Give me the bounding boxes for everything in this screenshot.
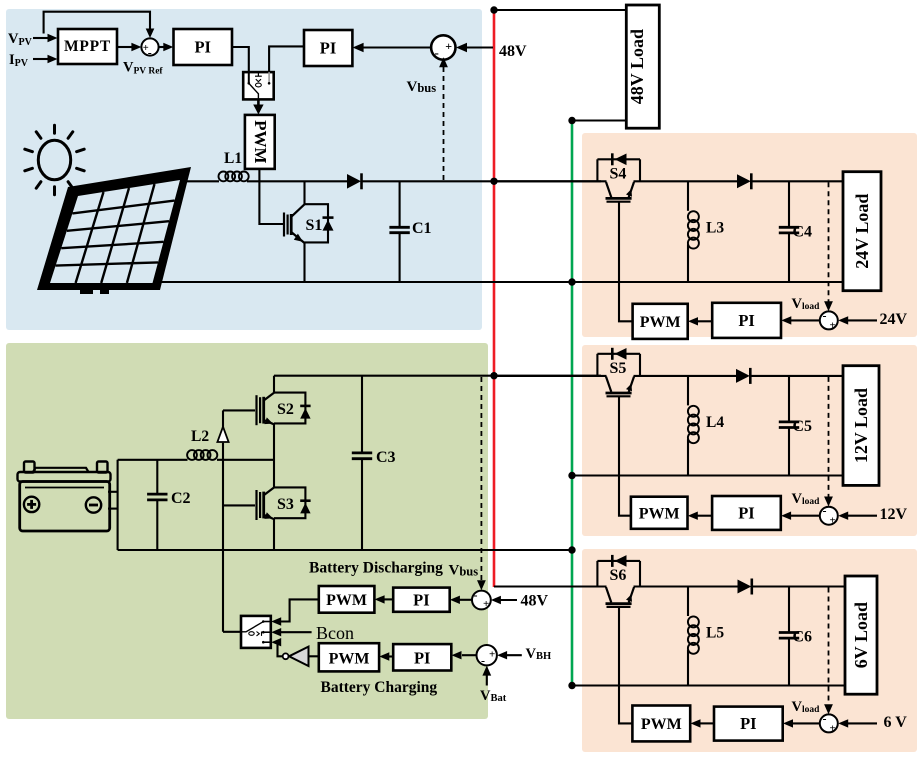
svg-text:C1: C1 <box>412 220 432 237</box>
PWM block (boost) <box>245 115 275 169</box>
PI controller block (48V loop) <box>304 30 352 66</box>
svg-text:C4: C4 <box>793 223 813 240</box>
S4 freewheeling diode <box>612 153 626 165</box>
wire red bus to 48V load <box>494 9 626 11</box>
wire PV panel to L1 <box>186 180 219 182</box>
wire PWM to S5 gate <box>619 397 631 516</box>
wire S6 to output diode <box>634 585 738 587</box>
48V positive bus (red) <box>493 10 496 587</box>
wire MPPT to summer <box>117 43 141 51</box>
svg-text:Battery Discharging: Battery Discharging <box>309 560 443 577</box>
svg-text:PWM: PWM <box>329 651 370 668</box>
S6 freewheeling diode <box>612 555 626 567</box>
Vbus sense dashed wire (battery loop) <box>477 377 486 590</box>
summing junction (charging loop) <box>477 645 497 668</box>
12V reference arrow <box>838 512 877 520</box>
6 V reference arrow <box>838 719 877 727</box>
gate buffer (charging) <box>283 647 309 666</box>
svg-text:Vbus: Vbus <box>407 79 437 95</box>
wire PI to PWM (discharge) <box>375 595 394 603</box>
wire buffer to PWM (charging) <box>309 655 319 657</box>
svg-text:L4: L4 <box>706 414 724 431</box>
svg-text:S6: S6 <box>610 567 627 584</box>
svg-text:PI: PI <box>413 591 430 610</box>
wire summer to PI (S5) <box>781 512 820 520</box>
wire D1 to 24V converter input <box>362 180 601 182</box>
bottom rail (S5 converter) <box>572 474 843 476</box>
svg-text:C3: C3 <box>376 449 396 466</box>
svg-text:-: - <box>823 711 827 725</box>
wire PI to PWM (S6) <box>691 719 715 727</box>
S2 freewheeling diode <box>300 406 310 419</box>
Vload sense dashed wire (S5 converter) <box>824 377 833 507</box>
wire S4 to output diode <box>634 180 738 182</box>
svg-text:VBH: VBH <box>526 646 552 662</box>
svg-text:S1: S1 <box>306 217 323 234</box>
svg-text:Vbus: Vbus <box>449 563 479 579</box>
return bus (green) <box>571 121 574 686</box>
VBH reference arrow <box>497 651 522 659</box>
svg-text:Battery Charging: Battery Charging <box>321 679 438 696</box>
wire diode to load <box>752 180 843 182</box>
6V converter zone background <box>582 549 917 752</box>
24V reference arrow <box>838 316 877 324</box>
svg-text:PI: PI <box>414 648 431 667</box>
PI block (discharge) <box>393 588 450 612</box>
wire summer to PI (discharge) <box>450 596 472 604</box>
wire PI to PWM (charging) <box>379 652 393 660</box>
wire PWM to S6 gate <box>619 608 632 724</box>
svg-text:PI: PI <box>320 39 337 58</box>
48V reference arrow <box>456 43 493 53</box>
summing junction (discharge loop) <box>472 588 491 610</box>
transistor S3 (IGBT) <box>257 487 306 550</box>
svg-text:Bcon: Bcon <box>316 623 354 643</box>
svg-text:-: - <box>823 504 827 518</box>
svg-text:C6: C6 <box>793 629 813 646</box>
svg-text:6 V: 6 V <box>884 714 908 731</box>
battery converter top rail <box>274 375 601 377</box>
12V converter zone background <box>582 345 917 536</box>
output diode (S6 converter) <box>738 579 752 595</box>
PI block (S5 converter) <box>712 496 781 530</box>
svg-text:PWM: PWM <box>326 592 367 609</box>
svg-text:6V Load: 6V Load <box>851 602 871 668</box>
svg-text:24V: 24V <box>880 311 908 328</box>
svg-text:+: + <box>830 515 836 527</box>
wire PI to PWM (S4) <box>688 317 712 325</box>
wire PWM to S4 gate <box>619 202 633 321</box>
mode switch block <box>243 72 274 99</box>
svg-text:12V Load: 12V Load <box>851 388 871 463</box>
inductor L4 <box>688 376 699 476</box>
transistor S2 (IGBT) <box>257 376 306 426</box>
bottom rail (S6 converter) <box>572 684 845 686</box>
PWM block (discharge) <box>319 586 375 613</box>
transistor S4 (IGBT) <box>597 159 640 201</box>
wire buffer to switch input 3 <box>271 638 283 656</box>
svg-text:PWM: PWM <box>639 505 680 522</box>
inductor L3 <box>688 181 699 282</box>
svg-text:S3: S3 <box>277 496 294 513</box>
svg-text:PI: PI <box>738 503 755 522</box>
battery terminal wires <box>108 460 118 550</box>
main PV output wire <box>247 180 347 182</box>
wire diode to load <box>751 375 843 377</box>
PI controller block (MPPT loop) <box>174 29 233 65</box>
Vload sense dashed wire (S6 converter) <box>824 588 833 715</box>
wire input to S5 <box>494 375 607 377</box>
wire S5 to output diode <box>634 375 737 377</box>
battery converter bottom rail <box>118 549 572 551</box>
S1 freewheeling diode <box>323 218 334 231</box>
svg-text:48V: 48V <box>521 593 549 610</box>
svg-text:PWM: PWM <box>640 314 681 331</box>
svg-text:+: + <box>445 39 452 53</box>
Vload sense dashed wire (S4 converter) <box>824 182 833 311</box>
svg-text:MPPT: MPPT <box>64 38 111 55</box>
wire gate net to Bcon switch <box>223 631 241 633</box>
battery converter zone background <box>6 343 488 719</box>
svg-text:-: - <box>474 588 478 602</box>
boost diode D1 <box>347 173 362 189</box>
wire input to S4 <box>494 180 607 182</box>
PV panel <box>37 167 191 294</box>
Vpv feedback wire <box>44 12 155 38</box>
svg-text:12V: 12V <box>880 506 908 523</box>
PI block (S4 converter) <box>712 303 781 338</box>
svg-text:C5: C5 <box>793 418 813 435</box>
capacitor C5 <box>779 376 799 476</box>
output diode (S4 converter) <box>737 173 751 189</box>
svg-text:-: - <box>435 45 439 60</box>
output diode (S5 converter) <box>736 368 750 384</box>
summing junction (24V Load loop) <box>820 308 838 331</box>
Vpv input label <box>8 31 58 48</box>
summing junction (48V bus reg) <box>431 35 455 60</box>
capacitor C2 <box>147 460 167 550</box>
svg-text:24V Load: 24V Load <box>852 194 872 269</box>
6V Load block <box>845 576 877 694</box>
svg-text:S2: S2 <box>277 401 294 418</box>
shared negative rail (PV / 24V converter) <box>157 281 843 283</box>
S3 freewheeling diode <box>300 501 310 514</box>
wire green bus to 48V load <box>572 119 626 121</box>
wire summer to PI(48V) <box>353 43 432 53</box>
svg-text:PWM: PWM <box>641 716 682 733</box>
wire switch to PWM <box>253 99 263 114</box>
12V Load block <box>843 366 879 486</box>
svg-text:L5: L5 <box>706 625 724 642</box>
svg-text:S4: S4 <box>610 165 627 182</box>
svg-text:L1: L1 <box>224 150 242 167</box>
svg-text:+: + <box>483 598 489 610</box>
capacitor C1 <box>389 181 409 282</box>
wire diode to load <box>752 585 845 587</box>
PWM block (charging) <box>319 643 379 671</box>
transistor S5 (IGBT) <box>597 354 640 397</box>
wire summer to PI (S4) <box>781 316 820 324</box>
svg-text:-: - <box>148 46 152 60</box>
S5 freewheeling diode <box>612 348 626 360</box>
transistor S1 (IGBT) <box>284 181 328 282</box>
PWM block (S4 converter) <box>633 304 688 339</box>
Bcon selector switch <box>241 616 271 648</box>
wire L2 to half-bridge midpoint <box>217 459 274 461</box>
Ipv input label <box>9 52 58 69</box>
junction dots <box>490 6 575 689</box>
wire PWM to switch input 1 (discharge) <box>271 599 319 625</box>
wire summer to PI (charging) <box>452 651 477 659</box>
svg-text:PI: PI <box>194 38 211 57</box>
svg-text:-: - <box>823 308 827 322</box>
VBat feedback arrow <box>482 666 491 686</box>
svg-text:PI: PI <box>738 311 755 330</box>
24V converter zone background <box>582 133 917 337</box>
svg-text:48V: 48V <box>499 43 527 60</box>
svg-text:+: + <box>830 319 836 331</box>
48V reference arrow (discharge loop) <box>491 596 517 604</box>
svg-text:VBat: VBat <box>480 688 507 704</box>
capacitor C4 <box>779 181 799 282</box>
inductor L5 <box>688 587 699 686</box>
PWM block (S5 converter) <box>631 497 688 529</box>
svg-text:PWM: PWM <box>251 120 270 163</box>
MPPT block U1 <box>58 29 117 64</box>
svg-text:48V Load: 48V Load <box>627 29 647 104</box>
wire PI(48V) to switch input 2 <box>269 46 304 72</box>
summing junction (6V Load loop) <box>820 711 838 734</box>
PI block (charging) <box>393 644 451 670</box>
svg-text:+: + <box>830 722 836 734</box>
gate drive buffer arrow <box>217 427 228 442</box>
summing junction (Vpv ref) <box>141 38 158 59</box>
wire input to S6 <box>494 585 607 587</box>
Vbus feedback dashed wire <box>439 57 448 181</box>
24V Load block <box>843 172 881 291</box>
wire PI to PWM (S5) <box>688 512 712 520</box>
half-bridge midpoint wire <box>273 424 275 487</box>
wire PI to switch input 1 <box>232 47 249 72</box>
svg-text:L3: L3 <box>706 219 724 236</box>
wire summer to PI (S6) <box>783 719 820 727</box>
sun icon <box>25 125 84 195</box>
wire summer to PI <box>159 43 174 51</box>
capacitor C3 <box>352 376 372 550</box>
svg-text:+: + <box>489 649 495 661</box>
summing junction (12V Load loop) <box>820 504 838 527</box>
capacitor C6 <box>779 587 799 686</box>
PWM block (S6 converter) <box>632 706 690 742</box>
svg-text:C2: C2 <box>171 490 191 507</box>
48V Load block <box>626 5 659 128</box>
battery icon <box>18 462 111 532</box>
PWM to S1 gate wire <box>259 169 283 224</box>
svg-text:-: - <box>481 654 485 668</box>
svg-text:S5: S5 <box>610 360 627 377</box>
transistor S6 (IGBT) <box>597 561 640 607</box>
PV converter zone background <box>6 9 482 330</box>
inductor L2 <box>187 450 217 460</box>
PI block (S6 converter) <box>714 707 783 741</box>
Bcon input arrow <box>271 628 311 636</box>
inductor L1 <box>219 172 249 182</box>
battery top rail wire <box>118 459 188 461</box>
svg-text:L2: L2 <box>191 428 209 445</box>
gate drive net (Bcon switch to S2/S3 gates) <box>223 410 255 631</box>
svg-text:PI: PI <box>740 714 757 733</box>
